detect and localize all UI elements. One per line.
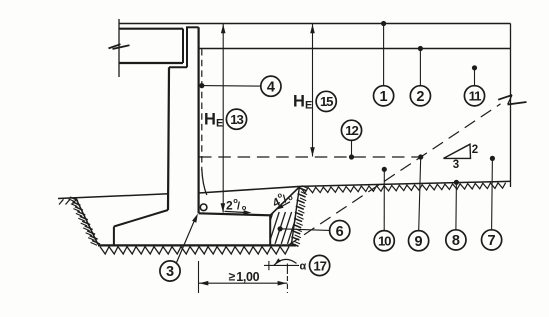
- right boundary line: [510, 24, 512, 188]
- floor slab end face: [182, 29, 184, 63]
- break mark on right boundary: [498, 95, 526, 105]
- ground level dashed line: [199, 156, 421, 158]
- svg-text:3: 3: [453, 159, 459, 171]
- callout 3: [160, 261, 180, 281]
- svg-text:3: 3: [166, 264, 174, 280]
- svg-text:E: E: [216, 118, 223, 130]
- svg-text:1: 1: [380, 89, 388, 105]
- excavation bottom line: [98, 244, 296, 246]
- callout 9: [409, 231, 429, 251]
- callout 11: [464, 86, 484, 106]
- svg-text:9: 9: [415, 234, 423, 250]
- leader 7: [490, 156, 495, 230]
- callout 10: [374, 231, 394, 251]
- floor slab bottom edge: [119, 62, 183, 64]
- svg-text:1,00: 1,00: [236, 270, 259, 284]
- leader 10: [382, 167, 387, 231]
- wall sealing dashed line: [201, 49, 203, 170]
- callout 12: [341, 120, 361, 140]
- svg-text:7: 7: [488, 233, 496, 249]
- drainage layer surface: [199, 186, 300, 193]
- svg-text:2: 2: [416, 89, 424, 105]
- svg-text:10: 10: [378, 234, 391, 249]
- svg-text:17: 17: [313, 258, 326, 273]
- svg-text:13: 13: [230, 112, 243, 127]
- arrow 2 permille: [225, 210, 252, 214]
- break mark on slab cut line: [109, 44, 130, 49]
- floor slab cut line: [118, 19, 120, 77]
- svg-text:2: 2: [472, 144, 478, 156]
- leader 2: [418, 46, 423, 86]
- leader 6: [278, 226, 330, 231]
- wall support ledge: [169, 66, 187, 68]
- slope dashed line 2:3: [288, 104, 501, 246]
- leader 1: [381, 21, 386, 86]
- soil hatching on right cut: [291, 186, 309, 247]
- wall top edge: [186, 26, 199, 28]
- slope triangle 2:3: [444, 144, 479, 171]
- svg-text:8: 8: [452, 233, 460, 249]
- drain pipe: [200, 204, 207, 211]
- leader 8: [454, 180, 459, 230]
- wall left face: [168, 67, 169, 210]
- filter wedge hatching: [262, 212, 316, 246]
- leader 3: [177, 214, 198, 263]
- svg-text:4: 4: [267, 79, 275, 95]
- filter wedge top edge: [270, 187, 299, 216]
- svg-text:2: 2: [226, 199, 233, 213]
- soil hatching under left ground line: [59, 199, 77, 204]
- callout 1: [374, 86, 394, 106]
- ground surface line (top): [119, 23, 511, 25]
- svg-text:15: 15: [320, 94, 333, 109]
- excavation cut right: [292, 186, 300, 243]
- svg-text:/: /: [237, 201, 240, 213]
- label HE 13: [204, 109, 247, 129]
- svg-text:11: 11: [469, 89, 482, 104]
- label 4 permille: [269, 186, 295, 210]
- dimension line HE right: [310, 24, 315, 157]
- angle alpha mark: [264, 258, 307, 272]
- svg-text:6: 6: [336, 224, 344, 240]
- label HE 15: [293, 91, 336, 111]
- callout 8: [446, 230, 466, 250]
- excavation slope left: [76, 198, 99, 245]
- wall upper left face: [186, 27, 188, 67]
- backfill surface line: [199, 48, 511, 50]
- svg-text:H: H: [204, 111, 216, 129]
- svg-text:≥: ≥: [229, 270, 236, 284]
- arrow 4 permille: [276, 202, 290, 210]
- svg-text:12: 12: [345, 123, 358, 138]
- soil hatching on left slope: [69, 197, 101, 245]
- dimension line HE left: [221, 24, 226, 213]
- callout 17: [310, 255, 330, 275]
- svg-text:E: E: [305, 100, 312, 112]
- floor slab top edge: [119, 28, 183, 30]
- callout 4: [261, 76, 281, 96]
- excavation bottom hatching: [100, 247, 289, 254]
- callout 6: [330, 221, 350, 241]
- soil hatching under right ground line: [301, 183, 506, 193]
- dimension >=1,00: [199, 261, 288, 293]
- ground line right: [300, 181, 512, 186]
- footing right end: [269, 215, 271, 245]
- leader 9: [418, 154, 423, 230]
- leader 11: [472, 65, 477, 85]
- callout 7: [482, 230, 502, 250]
- label 2 permille: [226, 196, 247, 213]
- leader 12: [349, 141, 354, 160]
- ground line left: [58, 194, 169, 199]
- svg-text:α: α: [300, 261, 307, 273]
- wall haunch: [114, 210, 168, 227]
- footing left face: [113, 227, 115, 246]
- svg-text:H: H: [293, 93, 305, 111]
- wall right face: [198, 27, 200, 213]
- callout 2: [410, 86, 430, 106]
- leader 4: [199, 83, 261, 88]
- footing heel top: [199, 213, 271, 215]
- sealing curve at base: [202, 169, 207, 195]
